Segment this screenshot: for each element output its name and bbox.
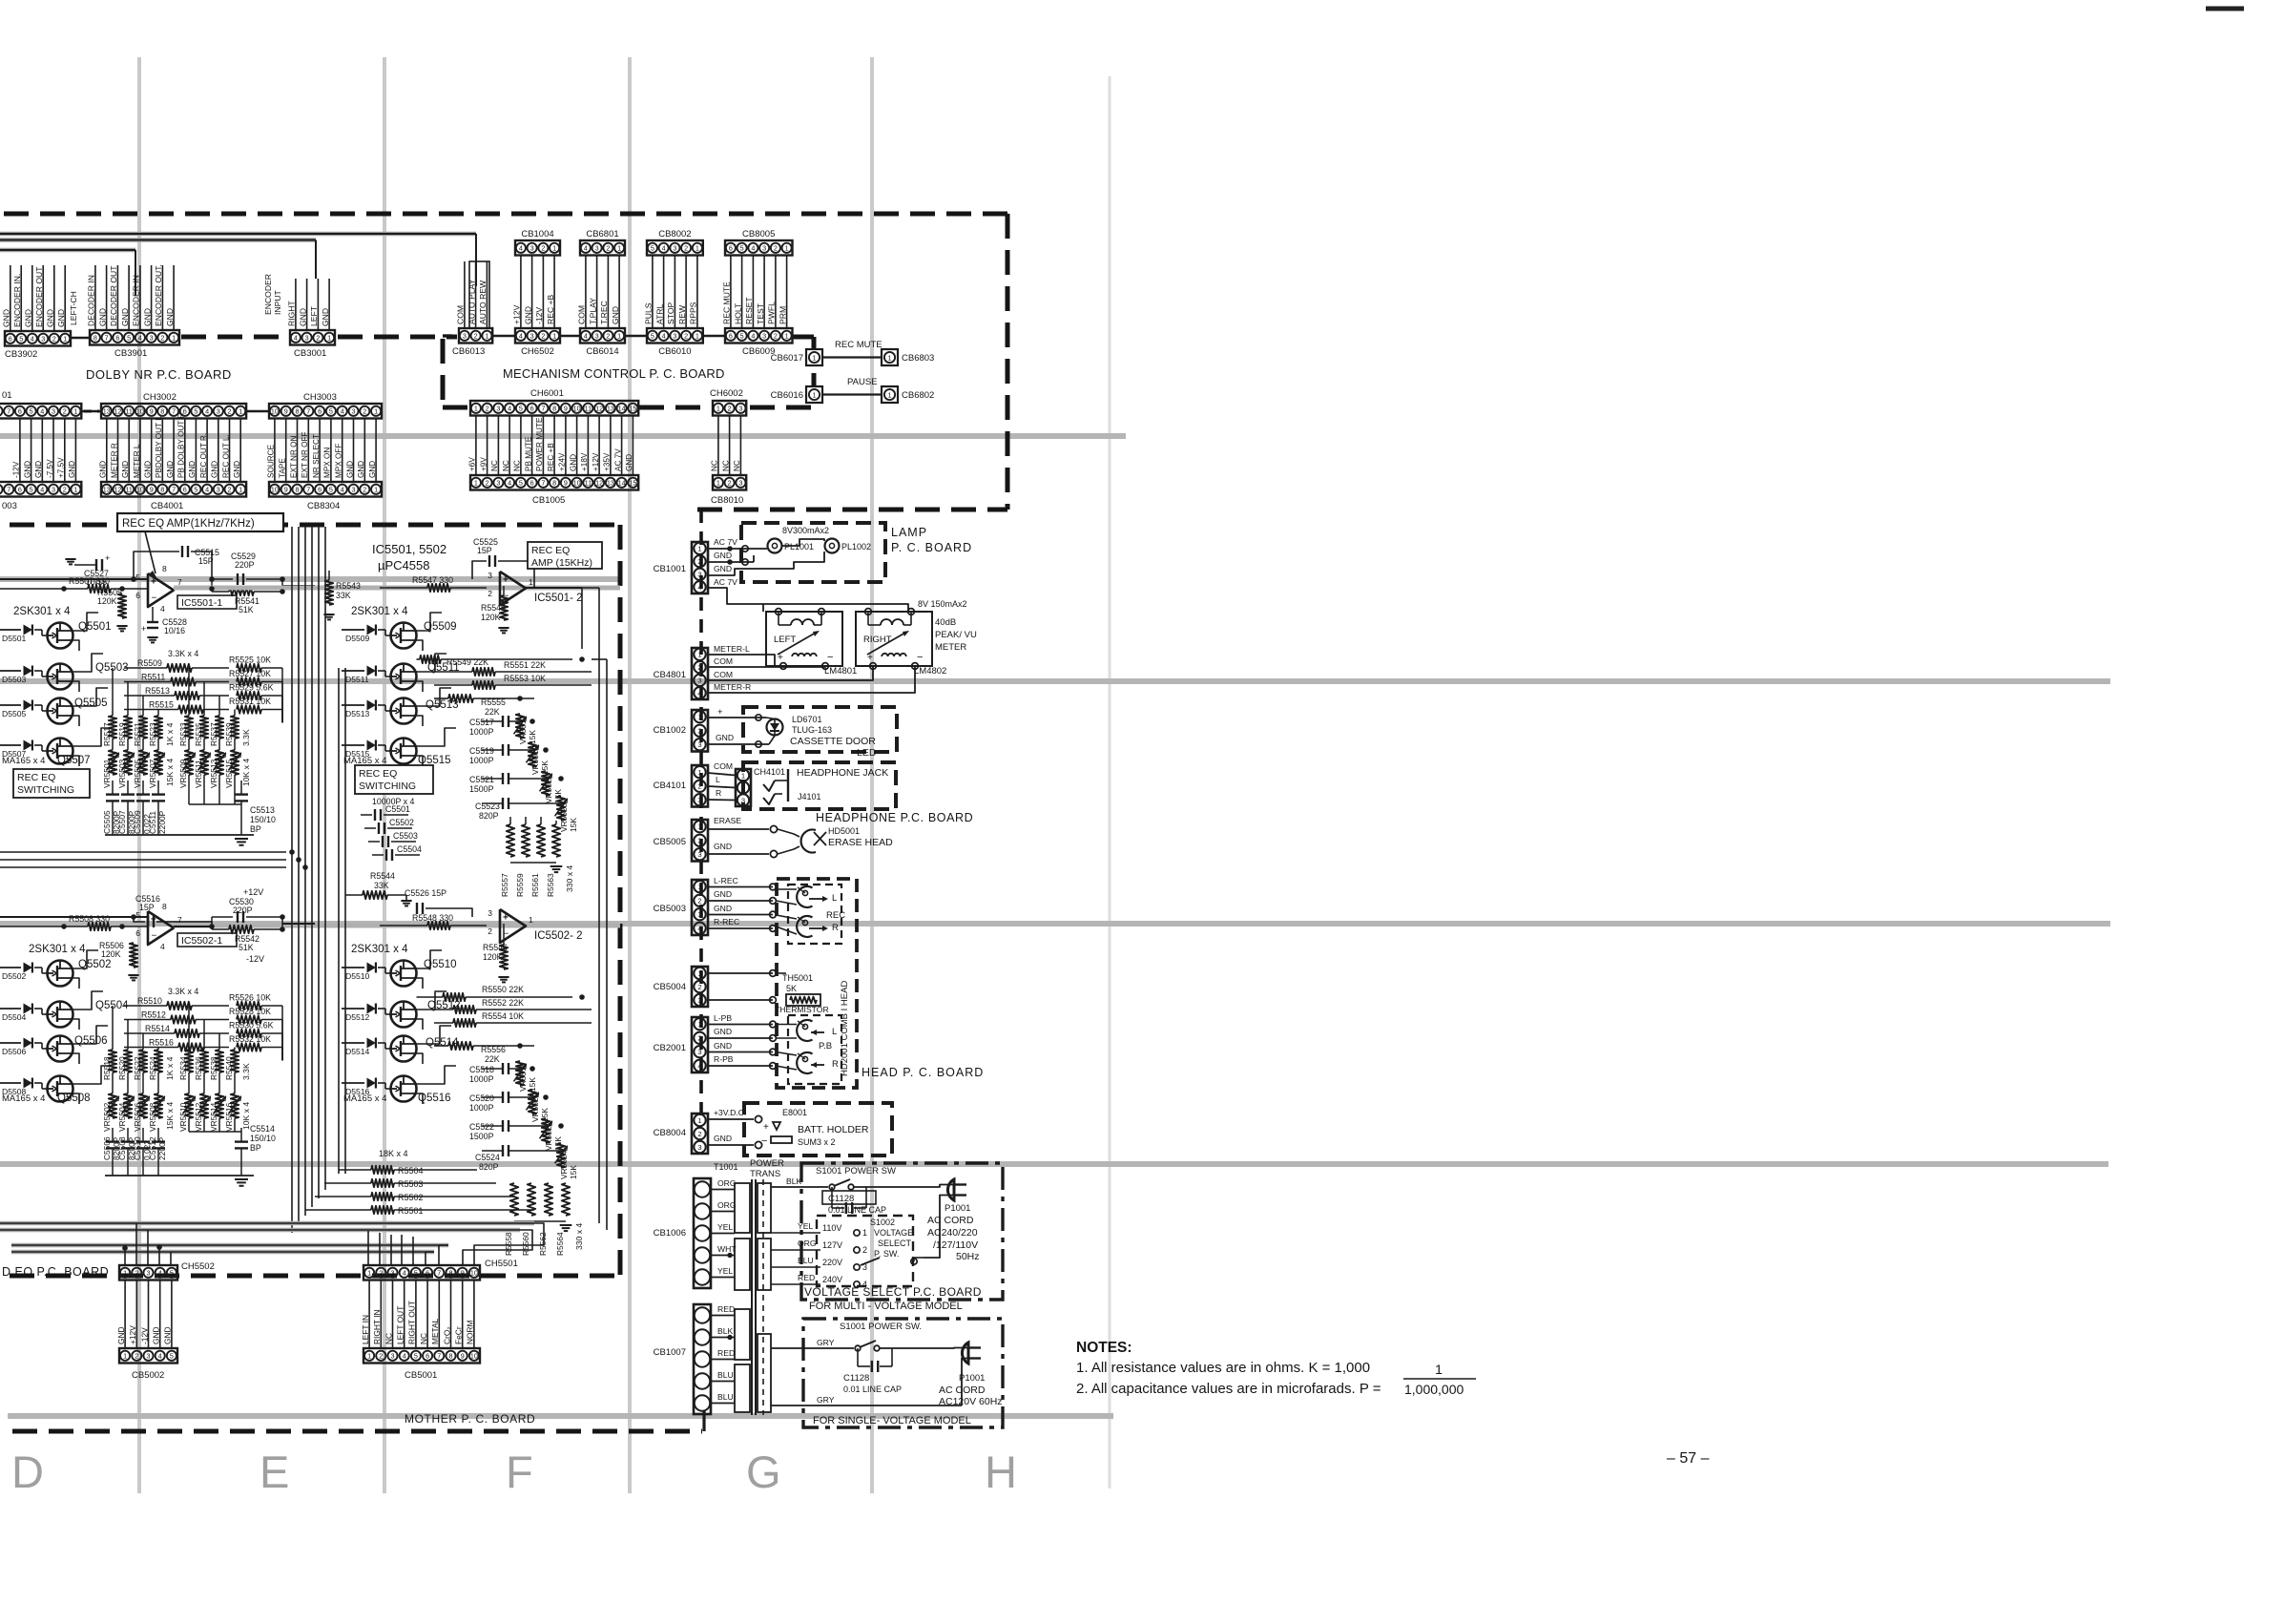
- svg-text:VR5509: VR5509: [178, 759, 188, 788]
- svg-text:CB1001: CB1001: [654, 564, 686, 574]
- capacitor C5527 10/16: [74, 564, 95, 566]
- capacitor C5515 15P: [134, 552, 179, 579]
- resistor R5538: [218, 1033, 220, 1050]
- svg-text:1K x 4: 1K x 4: [165, 1056, 175, 1080]
- svg-text:R5558: R5558: [504, 1232, 513, 1256]
- svg-text:33K: 33K: [336, 591, 351, 600]
- svg-text:8: 8: [552, 404, 556, 412]
- ground C5527: [65, 558, 75, 560]
- output wire IC5501-1: [174, 588, 212, 590]
- svg-text:3: 3: [530, 331, 534, 340]
- variable resistor VR5509: [188, 739, 190, 750]
- diode D5514: [342, 1042, 364, 1044]
- svg-text:P1001: P1001: [959, 1373, 985, 1384]
- svg-text:HEADPHONE P.C. BOARD: HEADPHONE P.C. BOARD: [816, 811, 973, 824]
- svg-text:AC CORD: AC CORD: [939, 1385, 986, 1396]
- svg-text:1: 1: [697, 1116, 701, 1125]
- capacitor C5507 8200P: [127, 781, 129, 795]
- svg-text:2: 2: [316, 333, 320, 342]
- svg-text:18K x 4: 18K x 4: [379, 1149, 408, 1158]
- svg-text:2: 2: [697, 837, 701, 845]
- svg-text:3: 3: [738, 478, 742, 487]
- svg-text:GND: GND: [233, 461, 241, 478]
- lamp wiring: [708, 548, 767, 550]
- svg-text:J4101: J4101: [798, 792, 821, 802]
- svg-text:003: 003: [2, 501, 17, 511]
- svg-text:2: 2: [160, 333, 164, 342]
- svg-text:2: 2: [363, 406, 366, 415]
- ground: [235, 838, 248, 840]
- svg-text:R: R: [832, 1059, 839, 1070]
- svg-text:D5512: D5512: [345, 1012, 370, 1022]
- svg-text:P.B: P.B: [819, 1041, 832, 1051]
- single voltage dash-dot box: [803, 1319, 1003, 1427]
- resistor R5563: [552, 824, 560, 857]
- svg-text:1000P: 1000P: [469, 1074, 494, 1084]
- svg-text:5: 5: [127, 333, 131, 342]
- svg-text:VR5510: VR5510: [178, 1102, 188, 1132]
- CB1007 wires: [711, 1315, 735, 1317]
- svg-text:BLU: BLU: [798, 1256, 814, 1265]
- bundle steps to CH5501: [474, 1223, 544, 1265]
- svg-text:3: 3: [673, 243, 676, 252]
- svg-text:GND: GND: [120, 308, 130, 326]
- diode D5502: [0, 967, 21, 968]
- svg-text:1: 1: [617, 331, 621, 340]
- svg-text:CB1004: CB1004: [521, 229, 553, 239]
- variable resistor VR5513: [218, 739, 220, 750]
- transistor Q5505: [48, 698, 73, 724]
- svg-text:GND: GND: [2, 309, 11, 327]
- svg-text:REC OUT R.: REC OUT R.: [199, 433, 208, 478]
- svg-text:D EQ P.C. BOARD: D EQ P.C. BOARD: [2, 1265, 109, 1279]
- diode D5515: [342, 744, 364, 746]
- svg-text:MPX ON: MPX ON: [323, 448, 332, 478]
- svg-text:4: 4: [584, 331, 588, 340]
- resistor R5542 51K: [229, 926, 254, 933]
- svg-text:R5554 10K: R5554 10K: [482, 1011, 524, 1021]
- svg-text:R5537: R5537: [209, 722, 218, 746]
- svg-text:DECODER OUT: DECODER OUT: [109, 265, 118, 326]
- svg-text:ORG: ORG: [717, 1178, 737, 1188]
- transistor Q5515: [391, 739, 417, 764]
- capacitor C5506 8200P: [112, 1128, 114, 1142]
- svg-text:CB8304: CB8304: [307, 501, 340, 511]
- svg-text:3: 3: [391, 1351, 395, 1360]
- svg-text:2SK301 x 4: 2SK301 x 4: [351, 944, 408, 955]
- svg-text:NC: NC: [513, 460, 522, 471]
- svg-text:P1001: P1001: [945, 1203, 970, 1214]
- svg-text:3: 3: [463, 331, 467, 340]
- capacitor C5504: [372, 854, 384, 856]
- svg-text:6: 6: [426, 1268, 429, 1277]
- svg-text:1: 1: [239, 406, 242, 415]
- resistor R5543 33K: [325, 580, 333, 605]
- resistor R5539: [234, 710, 236, 717]
- svg-text:7: 7: [172, 485, 176, 493]
- resistor R5501: [371, 1206, 394, 1214]
- svg-text:RIGHT IN: RIGHT IN: [372, 1309, 382, 1344]
- variable resistor VR5518: [516, 1061, 524, 1086]
- svg-text:+7.5V: +7.5V: [57, 457, 66, 478]
- svg-text:−: −: [152, 931, 157, 942]
- svg-text:5: 5: [19, 334, 23, 343]
- svg-text:2: 2: [541, 331, 545, 340]
- svg-text:GND: GND: [46, 309, 55, 327]
- variable resistor VR5522: [542, 1118, 550, 1143]
- diode D5511: [342, 670, 364, 672]
- svg-text:2: 2: [697, 983, 701, 991]
- svg-text:CH3002: CH3002: [143, 392, 176, 403]
- svg-text:R5557: R5557: [500, 873, 509, 897]
- svg-text:1: 1: [741, 771, 745, 780]
- connector CB6016: [806, 386, 822, 403]
- svg-text:SWITCHING: SWITCHING: [17, 784, 74, 796]
- svg-text:4: 4: [341, 406, 344, 415]
- resistor R5534: [188, 1006, 190, 1050]
- svg-text:GND: GND: [345, 461, 354, 478]
- svg-text:8: 8: [296, 406, 300, 415]
- svg-text:-7.5V: -7.5V: [46, 459, 54, 478]
- svg-text:NC: NC: [721, 460, 730, 471]
- svg-text:15K x 4: 15K x 4: [165, 759, 175, 786]
- svg-text:1: 1: [785, 331, 789, 340]
- ground 330x4: [510, 862, 556, 864]
- svg-text:RPPS: RPPS: [689, 302, 698, 324]
- mechanism board dashed bottom mid: [639, 406, 712, 410]
- wire CB6013-CH6502: [492, 335, 515, 338]
- svg-text:3: 3: [673, 331, 676, 340]
- svg-text:1: 1: [374, 485, 378, 493]
- svg-text:R5560: R5560: [521, 1232, 530, 1256]
- svg-text:MA165 x 4: MA165 x 4: [343, 1093, 386, 1104]
- connector CB4101: [692, 765, 708, 807]
- svg-text:YEL: YEL: [717, 1266, 733, 1276]
- label IC5502-1: [177, 933, 237, 947]
- CH6001-CB1005 ribbon labels: [475, 416, 477, 476]
- svg-text:7: 7: [541, 404, 545, 412]
- transistor Q5509: [391, 623, 417, 649]
- svg-text:3: 3: [595, 331, 599, 340]
- svg-text:2200P: 2200P: [157, 810, 167, 834]
- svg-text:12: 12: [595, 478, 603, 487]
- main unit dashed border top: [4, 212, 1007, 217]
- svg-text:REC OUT L.: REC OUT L.: [221, 434, 230, 478]
- svg-text:3: 3: [762, 243, 766, 252]
- svg-text:4: 4: [697, 925, 701, 933]
- svg-text:1. All resistance values are: 1. All resistance values are in ohms. K …: [1076, 1360, 1370, 1376]
- svg-text:SOURCE: SOURCE: [267, 444, 276, 478]
- svg-text:6: 6: [135, 928, 140, 938]
- svg-text:10/16: 10/16: [164, 626, 185, 635]
- svg-text:220P: 220P: [235, 560, 255, 570]
- svg-text:C1128: C1128: [843, 1373, 869, 1384]
- svg-text:9: 9: [150, 406, 154, 415]
- horizontal fold band 3: [0, 678, 2110, 684]
- svg-text:+35V: +35V: [603, 452, 612, 471]
- svg-text:1: 1: [697, 883, 701, 891]
- svg-text:PRM: PRM: [778, 306, 787, 324]
- resistor R5528 10K: [237, 1015, 261, 1023]
- variable resistor VR5510: [188, 1072, 190, 1093]
- svg-text:220V: 220V: [822, 1258, 842, 1267]
- svg-text:C5519: C5519: [469, 746, 494, 756]
- resistor R5516: [124, 1047, 178, 1049]
- mechanism dashed link to CB6013: [443, 334, 457, 337]
- connector CH6001: [470, 401, 638, 416]
- svg-text:BLU: BLU: [717, 1392, 734, 1402]
- svg-text:NC: NC: [384, 1333, 393, 1344]
- svg-text:CB3902: CB3902: [5, 349, 37, 360]
- svg-text:CH6001: CH6001: [530, 388, 564, 399]
- svg-text:9: 9: [284, 406, 288, 415]
- resistor R5541 51K: [229, 588, 254, 595]
- wire CH3002 left link: [81, 410, 101, 413]
- svg-text:RIGHT OUT: RIGHT OUT: [407, 1301, 417, 1344]
- diode D5505: [0, 704, 21, 706]
- svg-text:THERMISTOR: THERMISTOR: [775, 1005, 829, 1014]
- svg-text:15P: 15P: [198, 556, 214, 566]
- pb head L: [797, 1020, 812, 1041]
- plug P1001 single: [962, 1343, 968, 1364]
- svg-text:1: 1: [552, 243, 556, 252]
- svg-text:LM4802: LM4802: [914, 666, 946, 677]
- svg-text:3: 3: [217, 406, 220, 415]
- VR bank2 bottom bus bottom block: [188, 1118, 190, 1132]
- connector CB2001: [692, 1017, 708, 1072]
- svg-text:-12V: -12V: [139, 1327, 149, 1344]
- svg-text:CB1007: CB1007: [654, 1347, 686, 1358]
- svg-text:120K: 120K: [481, 613, 501, 622]
- boxed label REC EQ AMP(15KHz): [528, 542, 602, 569]
- svg-text:HEADPHONE JACK: HEADPHONE JACK: [797, 767, 888, 779]
- connector CB-left partial lower: [0, 482, 81, 497]
- svg-text:VR5511: VR5511: [194, 760, 203, 788]
- svg-text:D5511: D5511: [345, 675, 369, 684]
- svg-text:150/10: 150/10: [250, 815, 276, 824]
- svg-text:VR5503: VR5503: [117, 759, 127, 788]
- svg-text:EXT NR OFF: EXT NR OFF: [301, 431, 309, 478]
- diode D5506: [0, 1042, 21, 1044]
- svg-text:5: 5: [135, 573, 140, 582]
- svg-text:C5501: C5501: [385, 804, 410, 814]
- svg-text:10K x 4: 10K x 4: [241, 759, 251, 786]
- svg-text:STOP: STOP: [666, 302, 675, 324]
- svg-text:ENCODER OUT.: ENCODER OUT.: [154, 264, 163, 326]
- svg-text:C5508: C5508: [117, 1136, 127, 1160]
- svg-text:4: 4: [584, 243, 588, 252]
- dashed link CH3002: [84, 410, 99, 413]
- variable resistor VR5515: [234, 739, 236, 750]
- selector lever: [861, 1258, 880, 1265]
- resistor R5517: [112, 668, 114, 716]
- svg-text:NORM: NORM: [466, 1320, 475, 1344]
- svg-text:R5562: R5562: [538, 1232, 548, 1256]
- svg-text:D5501: D5501: [2, 634, 27, 643]
- CH5502-CB5002 ribbon labels: [124, 1280, 126, 1348]
- svg-text:D5504: D5504: [2, 1012, 27, 1022]
- svg-text:PB MUTE: PB MUTE: [524, 436, 532, 471]
- connector CB1005: [470, 475, 638, 490]
- connector CB8304: [269, 482, 382, 497]
- transistor Q5504: [48, 1002, 73, 1028]
- svg-text:R5519: R5519: [117, 722, 127, 746]
- svg-text:+12V: +12V: [512, 304, 522, 324]
- svg-text:3: 3: [305, 333, 309, 342]
- resistor R5511: [124, 681, 171, 683]
- svg-text:Q5502: Q5502: [78, 959, 112, 970]
- boxed label REC EQ SWITCHING (left): [13, 769, 90, 798]
- svg-text:VR5507: VR5507: [148, 759, 157, 788]
- svg-text:– 57 –: – 57 –: [1667, 1450, 1710, 1467]
- connector CH3002: [101, 404, 246, 419]
- svg-text:1: 1: [862, 1228, 867, 1238]
- connector CH6002: [713, 401, 746, 416]
- svg-text:CB5005: CB5005: [654, 837, 686, 847]
- svg-text:15: 15: [629, 404, 636, 412]
- wire bus to CB6013: [475, 261, 477, 286]
- svg-text:6: 6: [115, 333, 119, 342]
- svg-text:COM: COM: [714, 656, 733, 666]
- svg-text:VR5506: VR5506: [133, 1102, 142, 1132]
- resistor R5527 10K: [237, 677, 261, 685]
- vertical bus wires mid: [291, 527, 293, 1233]
- svg-text:2: 2: [63, 406, 67, 415]
- svg-text:1: 1: [716, 478, 720, 487]
- svg-text:LD6701: LD6701: [792, 715, 822, 724]
- svg-text:VR5518: VR5518: [518, 1062, 528, 1092]
- svg-text:C5507: C5507: [117, 810, 127, 834]
- battery board dashed box: [744, 1103, 892, 1156]
- svg-text:+: +: [105, 553, 110, 563]
- svg-text:R5510: R5510: [137, 996, 162, 1006]
- svg-text:1: 1: [367, 1268, 371, 1277]
- svg-text:3: 3: [496, 404, 500, 412]
- diode D5510: [342, 967, 364, 968]
- svg-text:CB6013: CB6013: [452, 346, 485, 357]
- svg-text:RESET: RESET: [744, 297, 754, 324]
- variable resistor VR5524: [557, 1143, 565, 1168]
- resistor R5520: [127, 1020, 129, 1051]
- horizontal fold band 6: [8, 1413, 1113, 1419]
- svg-text:TRANS: TRANS: [750, 1169, 780, 1179]
- svg-text:2: 2: [774, 243, 778, 252]
- svg-text:3: 3: [697, 677, 701, 685]
- svg-text:1: 1: [172, 333, 176, 342]
- resistor R5531 10K: [237, 705, 261, 713]
- svg-text:ATRL: ATRL: [654, 303, 664, 324]
- svg-text:GND: GND: [56, 309, 66, 327]
- svg-text:D5503: D5503: [2, 675, 27, 684]
- svg-text:1: 1: [73, 406, 77, 415]
- svg-text:2: 2: [697, 663, 701, 672]
- svg-text:1: 1: [123, 1268, 127, 1277]
- svg-text:8V300mAx2: 8V300mAx2: [782, 526, 829, 535]
- svg-text:4: 4: [403, 1268, 406, 1277]
- svg-text:R5503: R5503: [398, 1179, 424, 1189]
- svg-text:LEFT: LEFT: [774, 635, 796, 645]
- svg-text:8: 8: [93, 333, 97, 342]
- svg-text:FOR MULTI - VOLTAGE MODEL: FOR MULTI - VOLTAGE MODEL: [809, 1301, 963, 1312]
- svg-text:2SK301 x 4: 2SK301 x 4: [29, 944, 86, 955]
- svg-text:2: 2: [684, 243, 688, 252]
- svg-text:3: 3: [488, 908, 492, 918]
- svg-text:Q5510: Q5510: [424, 959, 457, 970]
- svg-text:REC: REC: [826, 910, 845, 921]
- svg-text:AMP (15KHz): AMP (15KHz): [531, 557, 592, 569]
- transistor Q5514: [391, 1036, 417, 1062]
- svg-text:4: 4: [205, 485, 209, 493]
- variable resistor VR5520: [529, 1090, 536, 1114]
- svg-text:-12V: -12V: [534, 307, 544, 324]
- callout line REC EQ AMP: [145, 531, 156, 573]
- svg-text:1: 1: [327, 333, 331, 342]
- pb head R: [797, 1052, 812, 1073]
- svg-text:1K x 4: 1K x 4: [165, 722, 175, 746]
- svg-text:CB8002: CB8002: [658, 229, 691, 239]
- left partial ribbon labels: [19, 419, 21, 483]
- svg-text:BLU: BLU: [717, 1370, 734, 1380]
- svg-text:3.3K x 4: 3.3K x 4: [168, 649, 198, 658]
- svg-text:CH3003: CH3003: [303, 392, 337, 403]
- svg-text:2: 2: [63, 485, 67, 493]
- svg-text:R5552 22K: R5552 22K: [482, 998, 524, 1008]
- CH5502 wires up: [124, 1246, 126, 1265]
- label IC5501-1: [177, 595, 237, 609]
- svg-text:INPUT: INPUT: [273, 289, 282, 315]
- mechanism board dashed bottom-left: [443, 406, 469, 410]
- connector CH5502: [119, 1265, 177, 1280]
- svg-text:D5505: D5505: [2, 709, 27, 718]
- svg-text:FeCr: FeCr: [454, 1326, 464, 1344]
- connector CB1004: [515, 240, 560, 256]
- transistor Q5502: [48, 961, 73, 987]
- svg-text:9: 9: [461, 1351, 465, 1360]
- svg-text:4: 4: [205, 406, 209, 415]
- bus drop to CB6013: [475, 234, 477, 286]
- svg-text:7: 7: [437, 1351, 441, 1360]
- svg-text:BLK: BLK: [786, 1176, 802, 1186]
- svg-text:E8001: E8001: [782, 1108, 807, 1117]
- svg-text:GND: GND: [142, 308, 152, 326]
- resistor R5521: [142, 696, 144, 716]
- svg-text:5: 5: [414, 1351, 418, 1360]
- svg-text:R5535: R5535: [194, 722, 203, 746]
- svg-text:GRY: GRY: [817, 1338, 835, 1347]
- svg-text:+: +: [778, 653, 783, 663]
- svg-text:2: 2: [488, 927, 492, 936]
- svg-text:GND: GND: [368, 461, 377, 478]
- svg-text:4: 4: [158, 1351, 162, 1360]
- right column dashed spine: [699, 510, 703, 1122]
- CH6002-CB8010 ribbon labels: [717, 416, 719, 476]
- svg-text:10: 10: [136, 406, 144, 415]
- svg-text:−: −: [761, 1135, 767, 1147]
- svg-text:4: 4: [40, 406, 44, 415]
- svg-text:2200P: 2200P: [157, 1136, 167, 1160]
- svg-text:2: 2: [697, 782, 701, 791]
- svg-text:D: D: [11, 1447, 44, 1497]
- svg-text:5: 5: [194, 406, 197, 415]
- wire CB6016-CB6802: [822, 393, 882, 395]
- CH3002-CB4001 ribbon labels: [106, 419, 108, 483]
- connector CB5003: [692, 880, 708, 935]
- svg-text:C5504: C5504: [397, 844, 422, 854]
- svg-text:8: 8: [296, 485, 300, 493]
- svg-text:D5513: D5513: [345, 709, 370, 718]
- svg-text:22K: 22K: [485, 1054, 500, 1064]
- diode D5507: [0, 744, 21, 746]
